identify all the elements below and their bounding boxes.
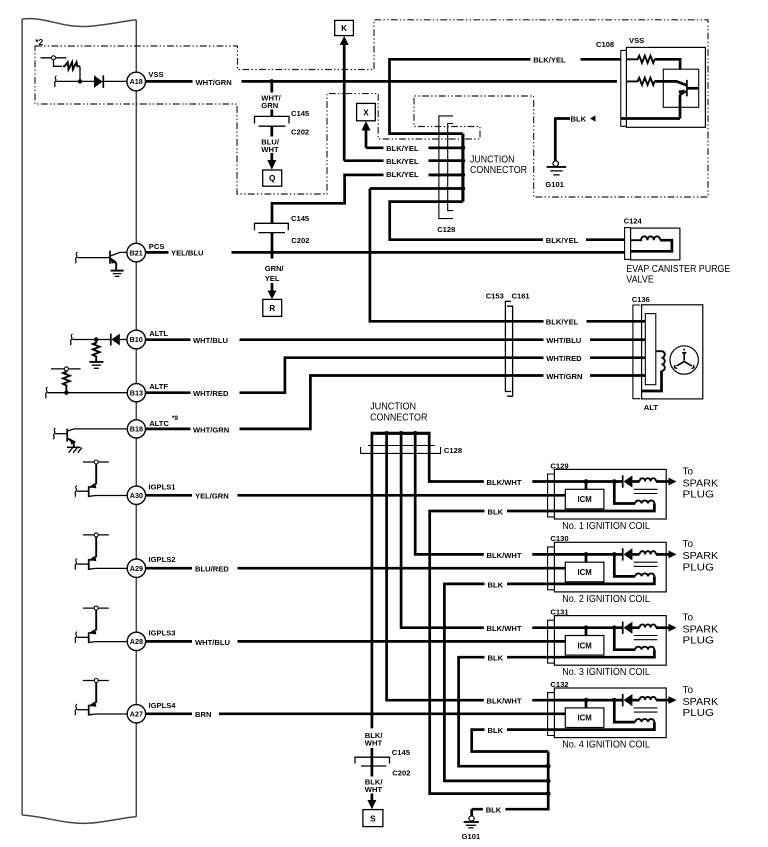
connector C145/C202 (second) (255, 223, 289, 232)
arrow into K (340, 36, 349, 45)
svg-text:C202: C202 (392, 768, 410, 777)
svg-text:To: To (683, 685, 694, 696)
wire YEL/BLU from B21 to EVAP valve (146, 251, 625, 254)
junction dot on ALTF wire (64, 391, 68, 395)
generator symbol (3-phase) (670, 346, 698, 374)
svg-text:BLK/WHT: BLK/WHT (487, 624, 522, 633)
VSS outer box (626, 47, 705, 127)
destination box K (335, 20, 354, 35)
svg-text:C202: C202 (291, 128, 309, 137)
feeder wire to No.1 coil (429, 432, 547, 482)
svg-text:No. 1 IGNITION COIL: No. 1 IGNITION COIL (562, 521, 650, 532)
svg-text:C128: C128 (437, 225, 455, 234)
svg-text:WHT/BLU: WHT/BLU (195, 638, 231, 647)
wire GRN/YEL below connector (271, 233, 274, 258)
svg-text:PLUG: PLUG (683, 489, 715, 500)
svg-text:WHT/RED: WHT/RED (546, 354, 582, 363)
svg-text:SPARK: SPARK (683, 478, 719, 489)
BLK/YEL wire row 2 (344, 159, 463, 162)
svg-text:No. 2 IGNITION COIL: No. 2 IGNITION COIL (562, 594, 650, 605)
ignition coil No.4 C132 (547, 688, 677, 738)
svg-text:C128: C128 (444, 446, 462, 455)
destination box S (363, 810, 383, 827)
pin circle A29 (127, 559, 145, 577)
destination box Q (263, 170, 282, 186)
dash-dot option-2 boundary loop (35, 20, 708, 197)
transistor Q5 (IGPLS2) (75, 533, 127, 570)
svg-text:BLK: BLK (488, 654, 504, 663)
svg-text:BLK/WHT: BLK/WHT (487, 478, 522, 487)
ECM left module bar with wavy torn edges (22, 19, 136, 824)
bus bar (372, 432, 429, 435)
junction dot (78, 79, 82, 83)
resistor to pin line (63, 371, 70, 391)
resistor to ground (93, 340, 100, 362)
solenoid coil L1 (631, 236, 661, 240)
field coil (656, 351, 665, 371)
connector C145/C202 (inline) (255, 116, 290, 126)
svg-text:No. 3 IGNITION COIL: No. 3 IGNITION COIL (562, 667, 650, 678)
svg-text:BLK/YEL: BLK/YEL (386, 144, 419, 153)
coil return wire (631, 240, 672, 251)
svg-text:C161: C161 (512, 291, 531, 300)
svg-text:BLU/RED: BLU/RED (195, 565, 229, 574)
svg-text:ALTF: ALTF (149, 382, 168, 391)
destination box X (357, 103, 376, 120)
svg-text:BLK: BLK (488, 580, 504, 589)
svg-text:BLK/WHT: BLK/WHT (487, 551, 522, 560)
svg-text:A28: A28 (130, 637, 143, 646)
svg-text:WHT/BLU: WHT/BLU (193, 336, 229, 345)
svg-text:ALTL: ALTL (149, 329, 168, 338)
svg-text:PLUG: PLUG (683, 636, 715, 647)
svg-text:C124: C124 (624, 216, 643, 225)
bus pin dots (461, 146, 466, 151)
svg-text:WHT/GRN: WHT/GRN (193, 425, 229, 434)
svg-text:WHT: WHT (365, 785, 383, 794)
svg-text:WHT/GRN: WHT/GRN (196, 78, 232, 87)
riser wire from BLK/YEL row 2 up to K (343, 45, 346, 161)
svg-text:A29: A29 (130, 564, 143, 573)
BLK/YEL wire row 3 to R-branch (272, 175, 463, 223)
svg-text:PLUG: PLUG (683, 708, 715, 719)
svg-text:*9: *9 (172, 415, 178, 422)
svg-text:BLK/WHT: BLK/WHT (487, 697, 522, 706)
ground (B21 emitter) (111, 271, 124, 277)
arrow into Q (270, 153, 273, 161)
wire row 4 from bus to alternator riser (370, 187, 463, 190)
pin circle B13 (127, 384, 145, 402)
transistor Q4 (IGPLS1) (75, 460, 127, 497)
svg-text:C129: C129 (550, 461, 568, 470)
junction dot (94, 337, 98, 341)
BLK wire coil1 to ground bus (430, 511, 549, 794)
BLK wire coil4 to ground bus (472, 730, 549, 752)
ALT outer box (642, 305, 703, 399)
svg-text:C136: C136 (632, 295, 650, 304)
svg-text:C132: C132 (550, 680, 568, 689)
svg-text:BLK: BLK (486, 806, 502, 815)
internal stub with open terminal (51, 367, 81, 371)
svg-text:YEL: YEL (265, 274, 280, 283)
svg-text:B21: B21 (130, 248, 143, 257)
svg-text:CONNECTOR: CONNECTOR (470, 165, 527, 176)
svg-text:PLUG: PLUG (683, 562, 715, 573)
svg-text:WHT: WHT (261, 145, 279, 154)
valve outer box (631, 228, 680, 260)
connector C124 bracket (625, 228, 631, 260)
riser from BLK/YEL row 1 up to X (365, 130, 368, 148)
internal wire with break squiggle (48, 392, 127, 394)
svg-text:C108: C108 (596, 40, 614, 49)
transistor Q3 (ALTC driver) (53, 428, 127, 447)
inner connector body (645, 314, 656, 385)
svg-text:SPARK: SPARK (683, 551, 719, 562)
diode D2 (cathode left) (111, 334, 127, 346)
wire from resistor down to A18 line (79, 66, 81, 81)
chassis ground (slash style) (67, 447, 82, 452)
arrow into X (362, 121, 371, 130)
ground G101 (lower) (464, 809, 479, 828)
svg-text:A30: A30 (130, 491, 143, 500)
svg-text:SPARK: SPARK (683, 697, 719, 708)
wire WHT/BLU from B10 to ALT (146, 338, 646, 341)
svg-text:ALTC: ALTC (149, 419, 169, 428)
BLK wire elbow to ground (555, 117, 570, 161)
svg-text:G101: G101 (462, 832, 481, 841)
svg-text:WHT/GRN: WHT/GRN (546, 372, 582, 381)
svg-text:To: To (683, 613, 694, 624)
resistor R2 (lower, on WHT/GRN) (626, 78, 654, 85)
svg-text:No. 4 IGNITION COIL: No. 4 IGNITION COIL (562, 740, 650, 751)
svg-text:C145: C145 (392, 748, 411, 757)
pin circle B10 (127, 330, 146, 349)
svg-text:K: K (341, 24, 347, 33)
bus pin dots (384, 431, 389, 436)
svg-text:YEL/GRN: YEL/GRN (195, 492, 229, 501)
svg-text:C153: C153 (486, 291, 504, 300)
S-branch feeder (371, 432, 374, 729)
svg-text:IGPLS2: IGPLS2 (149, 555, 176, 564)
svg-text:C130: C130 (550, 534, 568, 543)
pin circle B21 (127, 243, 146, 262)
svg-text:IGPLS4: IGPLS4 (149, 701, 177, 710)
resistor (slanted zigzag) in series (63, 62, 80, 69)
wire YEL/GRN to No.1 coil ICM (146, 494, 566, 497)
wire WHT/BLU to No.3 coil ICM (146, 640, 566, 643)
svg-text:BLK: BLK (488, 507, 504, 516)
transistor Q7 (IGPLS4) (75, 679, 127, 716)
svg-text:GRN: GRN (261, 101, 278, 110)
svg-text:BRN: BRN (195, 710, 211, 719)
svg-text:C145: C145 (291, 109, 310, 118)
svg-text:BLK/YEL: BLK/YEL (546, 236, 579, 245)
svg-text:To: To (683, 539, 694, 550)
EVAP feed wire from bus bottom to C124 (390, 202, 625, 240)
connector C108 bracket (621, 50, 626, 126)
svg-text:IGPLS1: IGPLS1 (149, 482, 177, 491)
BLK/YEL wire row 1 (366, 146, 463, 149)
svg-text:SPARK: SPARK (683, 625, 719, 636)
svg-text:Q: Q (269, 174, 276, 183)
svg-text:R: R (269, 304, 275, 313)
feeder wire to No.3 coil (401, 433, 547, 627)
BLK wire coil3 to ground bus (459, 657, 549, 766)
transistor Q1 (output) (655, 80, 699, 119)
resistor R1 (upper) (626, 56, 654, 63)
arrow into S (371, 794, 374, 801)
direction arrowhead on BLK wire (590, 115, 596, 121)
pin circle A28 (127, 632, 145, 650)
svg-text:*2: *2 (35, 37, 43, 47)
svg-text:IGPLS3: IGPLS3 (149, 628, 176, 637)
ignition coil No.3 C131 (547, 616, 677, 666)
internal wire with break squiggle (57, 80, 95, 82)
svg-text:BLK: BLK (488, 726, 504, 735)
svg-text:A27: A27 (130, 710, 143, 719)
pin circle A18 (127, 72, 146, 91)
svg-text:WHT: WHT (365, 739, 383, 748)
pin circle B18 (127, 420, 145, 438)
ground G101 (upper) (547, 161, 567, 175)
svg-text:EVAP CANISTER PURGE: EVAP CANISTER PURGE (626, 264, 730, 275)
transistor inner box (663, 69, 698, 107)
svg-text:ALT: ALT (644, 403, 659, 412)
svg-text:S: S (370, 814, 376, 823)
wire WHT/GRN from A18 to VSS sensor (146, 80, 618, 83)
svg-text:WHT/RED: WHT/RED (193, 389, 229, 398)
svg-text:VSS: VSS (629, 36, 644, 45)
ground (B10) (89, 362, 103, 368)
svg-text:BLK/YEL: BLK/YEL (386, 170, 419, 179)
svg-text:B13: B13 (130, 388, 143, 397)
internal wire with break squiggle (73, 339, 111, 341)
svg-text:C131: C131 (550, 608, 569, 617)
svg-text:C145: C145 (291, 214, 310, 223)
connector C136 bracket (633, 305, 640, 399)
BLK wire coil2 to ground bus (444, 584, 548, 781)
arrow into R (271, 283, 274, 291)
svg-text:BLK/YEL: BLK/YEL (386, 157, 419, 166)
feeder wire to No.4 coil (387, 433, 547, 700)
svg-text:X: X (363, 109, 369, 118)
junction node on WHT/GRN wire (270, 79, 275, 84)
transistor Q6 (IGPLS3) (75, 606, 127, 643)
bus bar of junction connector (461, 134, 464, 202)
A18 internal pull-up stub with open terminal (41, 56, 67, 67)
svg-text:JUNCTION: JUNCTION (470, 154, 515, 165)
svg-text:B18: B18 (130, 425, 143, 434)
svg-text:BLK/YEL: BLK/YEL (533, 56, 566, 65)
svg-text:G101: G101 (545, 180, 564, 189)
destination box R (263, 299, 282, 316)
svg-text:BLK/YEL: BLK/YEL (546, 318, 579, 327)
svg-text:B10: B10 (130, 335, 143, 344)
connector C145/C202 (third) (355, 757, 390, 766)
svg-text:CONNECTOR: CONNECTOR (370, 412, 427, 423)
pin circle A27 (127, 705, 145, 723)
pin circle A30 (127, 486, 145, 504)
break squiggle (54, 76, 56, 87)
svg-text:BLK: BLK (571, 114, 587, 123)
svg-text:VALVE: VALVE (626, 275, 654, 286)
diode D (pointing right) (94, 75, 127, 88)
wire R1 to transistor box (655, 59, 681, 69)
wire BLU/RED to No.2 coil ICM (146, 567, 566, 570)
svg-text:GRN/: GRN/ (265, 264, 285, 273)
connector bracket C128 (lower) (361, 446, 441, 454)
wire WHT/GRN from B18 to ALT (jogs up) (146, 376, 646, 429)
svg-text:PCS: PCS (149, 242, 165, 251)
wire WHT/RED from B13 to ALT (jogs up) (146, 358, 646, 393)
svg-text:A18: A18 (130, 77, 143, 86)
junction dots on collector (546, 764, 551, 769)
svg-text:C202: C202 (291, 236, 309, 245)
ignition coil No.2 C130 (547, 542, 677, 592)
short wire stubs at labels (429, 148, 463, 175)
BLK emitter return wire (621, 117, 680, 120)
svg-text:VSS: VSS (148, 70, 163, 79)
wire BLU/WHT below connector (270, 126, 273, 153)
connector bracket C128 (439, 116, 453, 219)
svg-text:YEL/BLU: YEL/BLU (171, 249, 204, 258)
transistor Q2 (PCS driver) (75, 251, 127, 271)
svg-text:JUNCTION: JUNCTION (370, 401, 416, 412)
svg-text:To: To (683, 466, 694, 477)
ignition coil No.1 C129 (547, 469, 677, 519)
svg-text:WHT/BLU: WHT/BLU (546, 336, 582, 345)
wire BRN to No.4 coil ICM (146, 712, 566, 715)
branch wire down to connector C145/C202 (270, 81, 273, 116)
feeder wire to No.2 coil (415, 433, 547, 554)
